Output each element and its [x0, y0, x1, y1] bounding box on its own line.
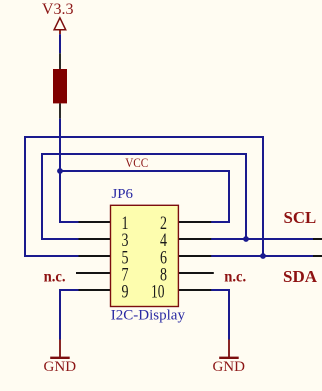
svg-text:SCL: SCL	[284, 208, 317, 227]
wire GND net left: pin 9 to ground	[60, 290, 79, 340]
junction SDA	[260, 253, 266, 259]
wire SCL line from pin 4 to right edge	[211, 238, 313, 240]
wire SDA line from pin 6 to right edge	[211, 255, 313, 257]
svg-text:9: 9	[122, 281, 129, 302]
wire V3.3 to resistor	[59, 34, 61, 53]
svg-text:n.c.: n.c.	[44, 269, 66, 286]
resistor R1 lead top	[59, 53, 61, 69]
resistor R1 lead bottom	[59, 103, 61, 118]
wire VCC net: resistor to junction to pin 1	[60, 119, 79, 222]
wire SDA net: pin 5 up, over, down to SDA line	[25, 137, 263, 256]
wire SCL net: pin 3 up, over, down to SCL line	[42, 154, 246, 239]
junction VCC	[57, 168, 63, 174]
ground symbol right: stem	[228, 340, 230, 358]
svg-text:10: 10	[151, 281, 165, 302]
ground symbol left: bar	[50, 357, 69, 359]
svg-text:GND: GND	[44, 359, 77, 375]
ground symbol left: stem	[59, 340, 61, 358]
svg-text:n.c.: n.c.	[224, 269, 246, 286]
svg-text:SDA: SDA	[283, 267, 318, 286]
wire VCC net: junction right, down, to pin 2	[60, 171, 229, 222]
svg-text:VCC: VCC	[125, 155, 148, 170]
pin stubs left (pins 1,3,5,7,9)	[76, 222, 112, 290]
off-sheet stub SDA right edge	[313, 255, 322, 257]
svg-text:GND: GND	[212, 359, 245, 375]
connector JP6 body	[111, 205, 179, 306]
supply symbol V3.3 triangle	[54, 18, 66, 30]
resistor R1 body	[53, 69, 67, 103]
ground symbol right: bar	[219, 357, 239, 359]
svg-text:I2C-Display: I2C-Display	[111, 308, 186, 324]
pin stubs right (pins 2,4,6,8,10)	[178, 222, 214, 290]
junction SCL	[243, 236, 249, 242]
wire GND net right: pin 10 to ground	[211, 290, 229, 340]
off-sheet stub SCL right edge	[313, 238, 322, 240]
supply symbol stem	[59, 30, 61, 34]
svg-text:JP6: JP6	[112, 187, 134, 202]
svg-text:V3.3: V3.3	[42, 1, 74, 18]
